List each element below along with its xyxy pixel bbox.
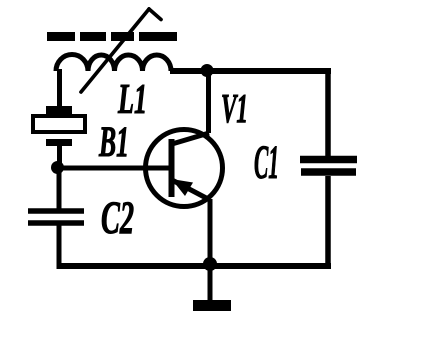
wire: C2 lower stem xyxy=(57,226,62,269)
inductor core dashed line xyxy=(47,32,177,41)
capacitor C1 top plate xyxy=(300,156,357,164)
wire: right vertical lower xyxy=(325,176,331,268)
capacitor C2 top plate xyxy=(28,208,84,214)
inductor L1 xyxy=(56,55,171,71)
wire: top rail xyxy=(170,68,331,74)
transistor V1 collector stroke xyxy=(172,133,209,144)
wire: bottom rail xyxy=(57,263,332,269)
transistor V1 circle xyxy=(146,130,223,207)
crystal B1 top plate xyxy=(46,106,72,114)
ground stem xyxy=(208,264,213,301)
crystal B1 body xyxy=(33,116,85,132)
node: top junction dot xyxy=(201,64,214,77)
tuning arrow xyxy=(81,9,161,92)
transistor V1 base bar xyxy=(169,139,175,197)
svg-text:L1: L1 xyxy=(117,77,147,123)
wire: right vertical upper xyxy=(325,68,331,158)
capacitor C2 bottom plate xyxy=(28,220,84,226)
transistor V1 emitter arrow (PNP) xyxy=(172,179,194,196)
wire: left leg of L1 xyxy=(57,69,62,108)
svg-text:B1: B1 xyxy=(98,119,129,166)
wire: C2 upper stem xyxy=(57,168,62,209)
svg-text:C2: C2 xyxy=(101,192,134,244)
transistor V1 emitter stroke xyxy=(172,180,210,200)
svg-text:V1: V1 xyxy=(221,85,248,131)
wire: B1 stem xyxy=(57,146,62,168)
node: base junction dot xyxy=(51,161,64,174)
capacitor C1 bottom plate xyxy=(301,168,356,176)
wire: emitter down xyxy=(208,199,213,266)
crystal B1 bottom plate xyxy=(46,139,72,146)
wire: base wire xyxy=(57,166,169,171)
wire: collector up xyxy=(206,70,211,133)
node: bottom junction dot xyxy=(203,257,217,271)
ground bar xyxy=(193,300,231,311)
svg-text:C1: C1 xyxy=(254,136,279,189)
